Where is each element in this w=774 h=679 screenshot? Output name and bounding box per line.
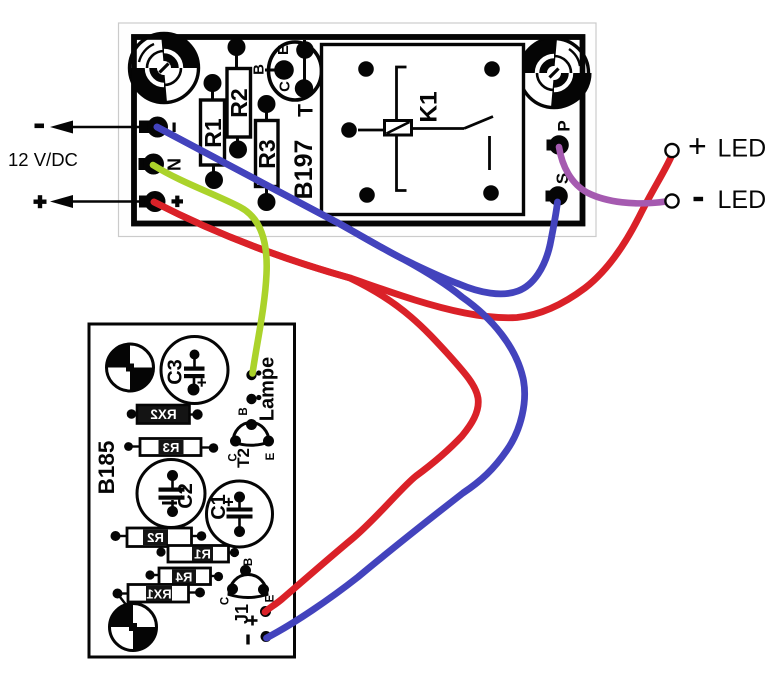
relay coil K1 [385, 121, 412, 136]
pad P [547, 120, 574, 154]
svg-text:C3: C3 [165, 359, 187, 385]
mounting hole B185 upper [107, 344, 154, 391]
svg-text:B: B [251, 64, 268, 75]
pad N on B197 [139, 154, 185, 175]
board B197 outline [134, 37, 583, 224]
label + of J1 [248, 616, 258, 626]
resistor R4 (B185) [145, 568, 223, 585]
Lampe pad 2 [246, 394, 256, 404]
board B197 border overlay [134, 37, 583, 224]
svg-text:RX2: RX2 [150, 407, 176, 422]
label - LED [694, 197, 704, 201]
relay pad 5 [483, 185, 499, 201]
relay pad 4 [359, 187, 375, 203]
svg-text:LED: LED [718, 186, 767, 214]
relay enclosure [322, 45, 524, 215]
svg-text:R1: R1 [200, 118, 226, 148]
label minus outside [35, 124, 45, 129]
capacitor C2 [137, 460, 205, 528]
wire purple from P pad to - LED [559, 147, 666, 203]
svg-text:12 V/DC: 12 V/DC [8, 149, 78, 170]
svg-text:T2: T2 [234, 448, 253, 468]
label plus outside [34, 195, 47, 208]
arrowhead minus [50, 121, 73, 134]
resistor R1 [200, 74, 226, 189]
resistor R2 (B185) [111, 528, 207, 547]
terminal circle + LED [665, 144, 678, 157]
resistor RX2 [127, 405, 203, 424]
pad + (plus) on B197 [139, 191, 183, 212]
svg-text:B197: B197 [290, 140, 318, 200]
resistor R1 (B185) [156, 546, 239, 563]
pad J1 - [261, 631, 272, 642]
svg-text:C1: C1 [208, 494, 230, 520]
transistor T2 [228, 407, 278, 468]
transistor T1 [220, 558, 277, 605]
svg-text:P: P [555, 120, 574, 131]
transistor T on B197 [251, 40, 322, 117]
svg-text:RX1: RX1 [146, 587, 171, 602]
wire red from + pad to J1 + [154, 202, 478, 612]
svg-text:R1: R1 [194, 547, 211, 562]
svg-text:C: C [277, 81, 294, 92]
mounting hole top-left [129, 33, 198, 102]
svg-text:LED: LED [718, 135, 767, 163]
resistor R3 [254, 95, 280, 211]
svg-text:R4: R4 [175, 570, 192, 585]
board B185 outline [89, 324, 295, 657]
svg-text:+: + [688, 128, 707, 164]
resistor R2 [226, 38, 252, 159]
svg-text:R3: R3 [254, 139, 280, 168]
Lampe pad 1 [246, 370, 256, 380]
svg-text:B185: B185 [94, 441, 119, 495]
svg-text:B: B [243, 558, 255, 566]
relay switch [412, 127, 465, 130]
label - of J1 [246, 635, 249, 645]
terminal circle - LED [665, 194, 678, 207]
svg-text:N: N [165, 158, 185, 171]
svg-text:T: T [295, 104, 318, 117]
mounting hole B185 lower [110, 604, 157, 651]
resistor RX1 [113, 585, 206, 607]
relay pad 3 [341, 122, 357, 138]
relay coil lead [358, 129, 383, 132]
svg-text:Lampe: Lampe [257, 357, 279, 421]
pad S [546, 173, 573, 206]
svg-text:R2: R2 [147, 530, 164, 545]
svg-text:E: E [275, 45, 292, 55]
svg-text:R2: R2 [226, 88, 252, 117]
relay pad 1 [358, 61, 374, 77]
svg-text:R3: R3 [163, 440, 180, 455]
arrowhead plus [50, 195, 73, 208]
svg-text:E: E [265, 452, 277, 460]
wire to minus terminal [62, 126, 152, 128]
resistor R3 (B185) [124, 439, 218, 456]
wire blue from - pad to S pad [157, 127, 558, 294]
pad J1 + [260, 606, 271, 617]
svg-text:B: B [238, 407, 250, 415]
relay pad 2 [484, 61, 500, 77]
wire green from N pad to Lampe [153, 165, 267, 374]
svg-text:C: C [220, 597, 232, 605]
capacitor C1 [207, 481, 273, 547]
scan frame around board B197 [119, 23, 597, 237]
wire to plus terminal [62, 200, 152, 202]
pad - (minus) on B197 [139, 117, 176, 138]
mounting hole top-right [519, 38, 591, 108]
svg-text:K1: K1 [416, 91, 443, 122]
wire red from + pad to + LED [154, 156, 672, 318]
wire blue from - pad to J1 - [157, 127, 525, 638]
svg-text:C2: C2 [175, 483, 197, 509]
relay coil bracket [397, 67, 407, 191]
capacitor C3 [161, 337, 228, 404]
